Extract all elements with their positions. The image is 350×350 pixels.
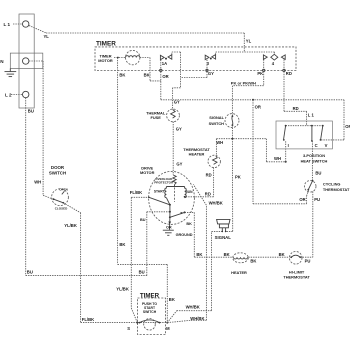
svg-text:L 1: L 1: [308, 112, 315, 117]
ground: [163, 229, 174, 231]
svg-text:RD: RD: [205, 191, 211, 196]
wire OR down to cycling thermostat: [252, 100, 254, 204]
svg-text:MOTOR: MOTOR: [98, 58, 113, 63]
svg-text:WH: WH: [216, 140, 223, 145]
svg-text:YL/BK: YL/BK: [116, 287, 129, 292]
svg-text:CLOSED: CLOSED: [55, 207, 68, 211]
signal buzzer: [217, 219, 230, 224]
svg-text:THERMOSTAT: THERMOSTAT: [283, 274, 310, 279]
drive motor: [149, 171, 195, 224]
svg-text:WH/BK: WH/BK: [190, 316, 204, 321]
heat switch blade I: [284, 126, 286, 140]
svg-text:SWITCH: SWITCH: [209, 121, 225, 126]
svg-text:OR: OR: [255, 104, 261, 109]
svg-text:DOOR: DOOR: [51, 165, 65, 170]
svg-text:S: S: [127, 326, 130, 331]
svg-text:BK: BK: [119, 242, 125, 247]
svg-text:BU: BU: [27, 269, 33, 274]
wire RD thermostat heater to motor: [213, 167, 215, 196]
terminal L1: [23, 21, 29, 27]
svg-text:SWITCH: SWITCH: [143, 310, 157, 314]
wire BU from C to cycling thermostat: [311, 141, 313, 181]
motor winding bus: [166, 186, 184, 188]
wire L1 lead: [13, 23, 23, 25]
timer box top: [95, 47, 296, 71]
signal switch: [225, 114, 239, 128]
svg-text:FL/BK: FL/BK: [82, 317, 94, 322]
svg-text:PROTECTOR: PROTECTOR: [154, 181, 174, 185]
svg-text:WH: WH: [274, 156, 281, 161]
svg-text:GY: GY: [208, 71, 214, 76]
svg-text:BU: BU: [140, 218, 146, 222]
wire PU cycling thermostat to hi-limit: [312, 192, 314, 258]
wire PK or PK/WH to signal switch: [232, 85, 263, 87]
terminal L2: [23, 91, 29, 97]
svg-text:OPEN: OPEN: [59, 187, 68, 191]
svg-text:PU: PU: [305, 259, 311, 264]
svg-text:BU: BU: [139, 269, 145, 274]
svg-text:SWITCH: SWITCH: [49, 170, 66, 175]
svg-text:YL: YL: [246, 39, 252, 44]
door switch: [52, 189, 69, 206]
terminal block TB1: [19, 14, 34, 108]
timer switch 3: [205, 55, 209, 59]
wire 1A right contact up-over to GY node: [171, 52, 173, 55]
svg-text:I: I: [288, 143, 289, 148]
svg-text:BK: BK: [144, 72, 150, 77]
wire BU from L2 down: [25, 98, 27, 276]
svg-text:SIGNAL: SIGNAL: [215, 235, 232, 240]
svg-text:GY: GY: [176, 162, 182, 167]
svg-text:3-POSITION: 3-POSITION: [303, 153, 325, 158]
svg-text:YL: YL: [44, 34, 50, 39]
wire BK heater to hi-limit: [248, 256, 289, 258]
wire 4 right leg RD: [283, 59, 285, 111]
svg-text:HEATER: HEATER: [231, 270, 247, 275]
svg-text:BK: BK: [196, 252, 202, 257]
svg-text:FUSE: FUSE: [151, 115, 162, 120]
svg-text:START: START: [154, 190, 165, 194]
wire WH/BK M to buzzer: [167, 311, 176, 323]
node S: [136, 322, 138, 324]
svg-text:HEATER: HEATER: [189, 152, 205, 157]
wire 3 left leg GY: [206, 60, 208, 78]
svg-text:L 2: L 2: [5, 93, 12, 98]
node M: [166, 322, 168, 324]
terminal N box: [10, 53, 43, 68]
timer motor coil: [126, 50, 140, 64]
wire YL/BK door switch down: [80, 213, 82, 323]
svg-text:BK: BK: [169, 297, 175, 302]
svg-text:WH/BK: WH/BK: [209, 201, 223, 206]
wire timer motor left: [114, 57, 126, 59]
svg-text:C: C: [315, 143, 318, 148]
wire PK signal switch to buzzer: [231, 139, 233, 232]
svg-text:OR: OR: [162, 74, 168, 79]
svg-text:BU: BU: [28, 109, 34, 114]
svg-text:GY: GY: [174, 100, 180, 105]
node L1 to heat switch: [306, 111, 308, 126]
wire timer motor right: [140, 57, 150, 59]
svg-text:PU: PU: [314, 197, 320, 202]
svg-text:WH/BK: WH/BK: [186, 305, 200, 310]
wire bottom run FL/BK to start switch: [81, 322, 168, 324]
svg-text:PK: PK: [235, 175, 241, 180]
wire 1A left leg OR: [160, 60, 162, 100]
wire WH net: [216, 138, 266, 140]
heat switch blade V: [321, 126, 323, 140]
svg-text:WH: WH: [34, 180, 41, 185]
svg-text:GY: GY: [176, 127, 182, 132]
svg-text:M: M: [166, 326, 170, 331]
wire OR long run: [161, 99, 344, 101]
wire 4 left leg PK: [263, 59, 265, 85]
svg-text:BK: BK: [279, 252, 285, 257]
wire PU hi-limit: [300, 256, 313, 258]
svg-text:YL/BK: YL/BK: [64, 223, 77, 228]
svg-text:GROUND: GROUND: [176, 233, 193, 237]
push to start switch: [144, 319, 156, 331]
wire L2 lead: [11, 94, 23, 96]
thermal fuse: [167, 109, 180, 122]
wire YL from L1 to timer: [29, 26, 46, 33]
hi-limit thermostat: [289, 251, 302, 264]
terminal N: [23, 58, 29, 64]
timer switch 4: [263, 55, 267, 60]
svg-text:RD: RD: [293, 106, 299, 111]
wire WH/BK M to motor: [167, 320, 191, 322]
ground at N: [9, 69, 11, 72]
wire 3 top post: [215, 52, 217, 55]
svg-text:RD: RD: [286, 71, 292, 76]
thermostat heater: [208, 155, 220, 167]
wire BK motor to heater: [185, 211, 195, 213]
timer switch 1A: [160, 55, 164, 59]
svg-text:L 1: L 1: [4, 22, 11, 27]
wire motor to ground: [169, 217, 171, 230]
svg-text:BK: BK: [119, 72, 125, 77]
svg-text:BK: BK: [186, 222, 192, 226]
svg-text:MOTOR: MOTOR: [140, 170, 155, 175]
wire 4 cam post: [273, 52, 275, 54]
svg-text:OR: OR: [166, 225, 172, 229]
heat switch blade C: [311, 126, 313, 141]
svg-text:RD: RD: [206, 172, 212, 177]
svg-text:BK: BK: [250, 258, 256, 263]
wire BU bottom run: [26, 275, 147, 277]
motor centrifugal switch: [148, 197, 150, 199]
cycling thermostat: [304, 181, 316, 193]
wire door switch blade out: [54, 199, 64, 203]
wire YL/BK motor to S: [130, 197, 132, 308]
svg-text:THERMOSTAT: THERMOSTAT: [323, 187, 350, 192]
wire GY fuse to motor: [172, 122, 174, 175]
svg-text:OR: OR: [299, 197, 305, 202]
svg-text:TIMER: TIMER: [140, 293, 160, 300]
wire WH from N to door switch: [29, 60, 43, 62]
svg-text:BK: BK: [224, 252, 230, 257]
wire OR right end to V: [343, 100, 345, 140]
wire BK timer motor to M: [117, 58, 119, 265]
wire timer bus: [216, 51, 275, 53]
wire YL drop to timer bus: [243, 33, 245, 52]
svg-text:TIMER: TIMER: [96, 40, 116, 47]
svg-text:PK: PK: [257, 71, 263, 76]
svg-text:1A: 1A: [162, 61, 167, 66]
svg-text:BU: BU: [315, 171, 321, 176]
svg-text:FL/BK: FL/BK: [130, 190, 142, 195]
svg-text:OR: OR: [345, 124, 350, 129]
wire GY staircase to thermal fuse: [181, 77, 208, 79]
svg-text:PK or PK/WH: PK or PK/WH: [231, 80, 256, 85]
svg-text:HEAT SWITCH: HEAT SWITCH: [301, 159, 328, 164]
3-position heat switch box: [276, 121, 332, 149]
svg-text:V: V: [325, 143, 328, 148]
wire FL/BK into motor: [131, 196, 149, 198]
timer (push to start) box: [138, 298, 166, 335]
svg-text:SIGNAL: SIGNAL: [209, 115, 224, 120]
wire BU up to motor: [146, 212, 148, 276]
heater: [233, 253, 249, 263]
